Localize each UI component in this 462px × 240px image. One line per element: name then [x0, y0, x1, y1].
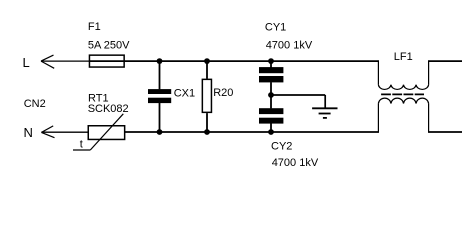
junction dot CY mid — [268, 92, 274, 98]
wire N net stub from port — [41, 131, 87, 133]
ground — [312, 108, 337, 118]
inductor LF1 core dashed line — [381, 93, 424, 95]
wire ground branch — [271, 94, 325, 96]
wire N net horizontal — [125, 131, 378, 133]
svg-text:CY1: CY1 — [265, 22, 286, 34]
svg-text:CY2: CY2 — [271, 141, 292, 153]
svg-text:4700 1kV: 4700 1kV — [272, 157, 319, 169]
capacitor CY2 — [259, 108, 319, 169]
junction dots N net — [157, 129, 274, 135]
svg-text:L: L — [23, 55, 30, 70]
svg-text:R20: R20 — [213, 87, 233, 99]
thermistor RT1 — [73, 93, 129, 151]
inductor LF1 bottom winding — [378, 98, 428, 133]
svg-text:F1: F1 — [88, 21, 101, 33]
wire LF1 to right edge bottom — [429, 131, 462, 133]
capacitor CY1 — [259, 22, 313, 109]
capacitor CX1 — [148, 61, 195, 132]
svg-text:LF1: LF1 — [394, 51, 413, 63]
wire L net horizontal — [89, 60, 378, 62]
svg-text:SCK082: SCK082 — [88, 103, 129, 115]
junction dots L net — [157, 58, 274, 64]
svg-text:t: t — [80, 138, 83, 150]
svg-text:CN2: CN2 — [24, 98, 46, 110]
svg-text:CX1: CX1 — [174, 88, 195, 100]
port arrow L — [41, 55, 54, 68]
resistor R20 — [202, 61, 233, 132]
fuse F1 — [88, 21, 130, 67]
wire LF1 to right edge top — [429, 60, 462, 62]
wire L net stub from port — [41, 60, 89, 62]
port arrow N — [41, 126, 54, 138]
svg-text:4700 1kV: 4700 1kV — [266, 39, 313, 51]
inductor LF1 top winding — [378, 60, 428, 89]
svg-text:5A 250V: 5A 250V — [88, 39, 130, 51]
svg-text:N: N — [24, 125, 33, 140]
